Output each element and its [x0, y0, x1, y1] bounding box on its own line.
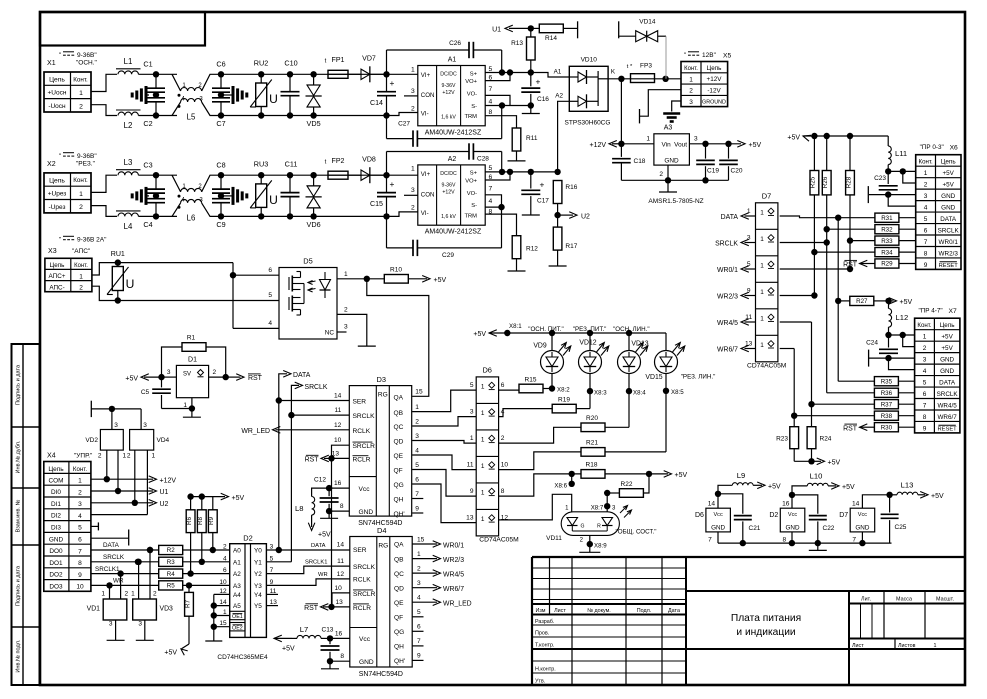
svg-text:QB: QB	[394, 556, 404, 563]
svg-text:DATA: DATA	[311, 543, 326, 549]
diode pack VD3	[133, 599, 157, 620]
svg-text:1: 1	[411, 66, 415, 73]
connector table X4	[44, 462, 91, 592]
resistor R14	[531, 27, 540, 29]
svg-text:Подпись и дата: Подпись и дата	[16, 565, 22, 606]
wire to VD2 VD4 pin3	[109, 406, 115, 412]
svg-text:WR6/7: WR6/7	[937, 414, 957, 421]
wire RU1 bottom to D5 pin5	[118, 300, 279, 302]
svg-text:QA: QA	[394, 395, 404, 402]
svg-text:L2: L2	[124, 121, 133, 130]
svg-text:5: 5	[78, 525, 82, 532]
resistor R13	[530, 28, 532, 37]
stub A2 CON	[404, 194, 418, 196]
capacitor C17	[530, 172, 532, 189]
svg-text:R10: R10	[390, 267, 402, 274]
svg-text:9: 9	[417, 653, 421, 660]
svg-text:RCLR: RCLR	[353, 457, 371, 464]
svg-text:QF: QF	[394, 615, 403, 622]
test point X8:1	[504, 330, 510, 336]
svg-text:12В": 12В"	[702, 52, 717, 59]
svg-text:9-36В": 9-36В"	[77, 52, 97, 59]
TVS VD6	[313, 175, 315, 186]
wire D5 pin2 to ground	[337, 314, 367, 346]
svg-text:Дата: Дата	[668, 608, 680, 614]
svg-text:+12V: +12V	[160, 477, 177, 484]
svg-text:R19: R19	[558, 397, 570, 404]
svg-text:VD1: VD1	[87, 606, 101, 613]
svg-text:WR: WR	[318, 572, 328, 578]
svg-text:Y0: Y0	[254, 548, 262, 555]
svg-text:3: 3	[138, 621, 142, 628]
capacitor C1	[155, 74, 157, 88]
svg-text:DO1: DO1	[49, 560, 63, 567]
svg-text:4: 4	[268, 320, 272, 327]
svg-text:R11: R11	[526, 135, 538, 142]
svg-text:QH': QH'	[394, 511, 405, 518]
svg-text:SRCLK1: SRCLK1	[95, 566, 120, 573]
inductor L10	[807, 483, 828, 486]
svg-text:t *: t *	[627, 64, 633, 70]
wire RU1 top to D5 pin6	[118, 262, 233, 264]
svg-text:3: 3	[411, 88, 415, 95]
svg-text:Y1: Y1	[254, 559, 262, 566]
chassis comb left	[145, 86, 148, 104]
svg-text:U: U	[269, 193, 278, 207]
svg-text:14: 14	[708, 501, 716, 508]
svg-text:5: 5	[268, 292, 272, 299]
svg-text:L9: L9	[737, 471, 745, 480]
wire D7 GND	[861, 532, 863, 543]
resistor R21	[499, 452, 581, 470]
svg-text:X8:9: X8:9	[594, 543, 607, 550]
svg-text:R8: R8	[197, 516, 204, 525]
svg-text:WR4/5: WR4/5	[937, 402, 957, 409]
resistor R33	[847, 237, 853, 243]
svg-text:+5V: +5V	[900, 299, 913, 306]
VD4 legs	[134, 450, 136, 503]
svg-text:QA: QA	[394, 542, 404, 549]
node K	[608, 78, 630, 80]
svg-text:1: 1	[411, 166, 415, 173]
svg-text:10: 10	[219, 579, 227, 586]
svg-text:9-36V: 9-36V	[442, 182, 456, 188]
svg-text:16: 16	[782, 501, 790, 508]
wire D3 RCLR	[332, 457, 350, 459]
svg-text:1: 1	[760, 236, 764, 243]
svg-text:Подл.: Подл.	[637, 608, 652, 614]
svg-text:VD13: VD13	[631, 341, 648, 348]
svg-text:АПС+: АПС+	[49, 273, 66, 280]
svg-text:2: 2	[79, 285, 83, 292]
wire DATA to D4 SER	[279, 549, 350, 551]
svg-text:1: 1	[747, 208, 751, 215]
svg-text:4: 4	[924, 205, 928, 212]
wire A1 TRM	[485, 116, 516, 128]
svg-text:QH: QH	[394, 497, 404, 504]
svg-text:1: 1	[760, 289, 764, 296]
svg-text:Инв.№ дубл.: Инв.№ дубл.	[16, 440, 22, 473]
svg-text:U: U	[269, 92, 278, 106]
svg-text:VO-: VO-	[467, 92, 477, 98]
svg-text:TRM: TRM	[465, 213, 478, 219]
svg-text:6: 6	[923, 391, 927, 398]
wire X2 rail to A2 VI+	[387, 174, 418, 176]
svg-text:OE2: OE2	[232, 625, 243, 631]
svg-text:D5: D5	[303, 257, 313, 266]
wire D5 pin1	[337, 278, 367, 280]
svg-text:CD74AC05M: CD74AC05M	[479, 536, 519, 543]
svg-text:VD2: VD2	[85, 437, 98, 444]
svg-text:+5V: +5V	[842, 484, 855, 491]
resistor R38	[791, 413, 797, 419]
svg-text:8: 8	[489, 109, 493, 116]
wire X1 rail to A1 VI+	[387, 73, 418, 75]
svg-text:9: 9	[415, 505, 419, 512]
svg-text:L7: L7	[300, 625, 308, 634]
stub Y5	[266, 605, 278, 607]
DC/DC module A2	[418, 165, 485, 225]
svg-text:5: 5	[415, 462, 419, 469]
+5V rail pullups	[191, 496, 225, 498]
svg-text:+12V: +12V	[707, 76, 723, 83]
wire after R3	[183, 561, 230, 563]
svg-text:R5: R5	[167, 583, 175, 590]
svg-text:C11: C11	[285, 159, 298, 168]
connector table X7	[915, 318, 960, 433]
svg-text:R1: R1	[187, 335, 196, 342]
svg-text:WR0/1: WR0/1	[443, 542, 464, 549]
wire pin2 X1	[91, 105, 117, 116]
svg-text:3: 3	[143, 422, 147, 429]
wire	[156, 73, 177, 75]
net arrow WR0/1 into D7	[745, 268, 756, 270]
svg-text:1,6 kV: 1,6 kV	[441, 115, 456, 121]
svg-text:-Uосн: -Uосн	[48, 103, 66, 110]
svg-text:1: 1	[344, 271, 348, 278]
svg-text:+Uрез: +Uрез	[48, 191, 67, 198]
wire top rail	[221, 174, 387, 176]
net arrow U1	[509, 27, 531, 29]
svg-text:SV: SV	[183, 372, 191, 378]
resistor R24	[807, 427, 816, 449]
ground stub D4	[329, 661, 331, 669]
svg-text:AM40UW-2412SZ: AM40UW-2412SZ	[425, 129, 482, 136]
capacitor C13	[329, 638, 331, 644]
test point X8:2	[551, 374, 553, 389]
svg-text:R27: R27	[856, 298, 868, 305]
svg-text:R15: R15	[525, 377, 537, 384]
svg-text:WR2/3: WR2/3	[717, 294, 738, 301]
wire SRCLK DO1	[91, 561, 159, 563]
resistor R4	[159, 569, 183, 578]
choke L6	[172, 175, 181, 192]
svg-text:Y5: Y5	[254, 603, 262, 610]
svg-text:7: 7	[78, 548, 82, 555]
svg-text:R2: R2	[167, 547, 175, 554]
svg-text:Vcc: Vcc	[359, 486, 371, 493]
ground stub bottom	[817, 543, 819, 550]
svg-text:5: 5	[923, 380, 927, 387]
svg-text:8: 8	[78, 560, 82, 567]
svg-text:4: 4	[489, 198, 493, 205]
svg-text:+5V: +5V	[282, 646, 295, 653]
net arrow DATA	[279, 374, 287, 401]
stub D4 QG	[412, 630, 423, 632]
svg-text:L8: L8	[295, 504, 303, 513]
svg-text:1: 1	[481, 516, 485, 523]
svg-text:VO-: VO-	[467, 191, 477, 197]
net arrow DATA into D7	[745, 215, 756, 217]
svg-text:VD10: VD10	[581, 57, 598, 64]
svg-text:1: 1	[78, 478, 82, 485]
svg-text:1: 1	[470, 435, 474, 442]
net arrow RST to D4	[323, 606, 332, 608]
chassis comb right	[232, 86, 235, 104]
svg-text:RESET: RESET	[939, 263, 959, 269]
svg-text:A2: A2	[448, 156, 457, 163]
svg-text:R: R	[597, 524, 601, 530]
svg-text:4: 4	[923, 368, 927, 375]
svg-text:DI1: DI1	[51, 501, 61, 508]
wire X6 GND	[885, 191, 891, 197]
svg-text:7: 7	[708, 537, 712, 544]
stub A1 CON	[404, 95, 418, 97]
wire D3 Vcc	[329, 487, 349, 489]
capacitor C26 loop	[386, 50, 388, 74]
svg-text:X8:4: X8:4	[633, 390, 646, 397]
svg-text:7: 7	[417, 638, 421, 645]
capacitor C12	[328, 488, 330, 496]
svg-text:CON: CON	[421, 191, 435, 198]
TVS VD14	[618, 21, 620, 38]
connector table X1	[44, 72, 91, 112]
svg-text:Цепь: Цепь	[49, 177, 65, 184]
svg-text:Vin: Vin	[662, 142, 672, 149]
svg-text:Конт.: Конт.	[73, 76, 88, 83]
svg-text:D7: D7	[839, 512, 848, 519]
svg-text:2: 2	[924, 182, 928, 189]
wire X3 pin1	[92, 263, 118, 275]
dots VD3 legs	[135, 559, 141, 565]
svg-text:3: 3	[114, 422, 118, 429]
svg-text:A3: A3	[664, 125, 673, 132]
svg-text:1: 1	[101, 591, 105, 598]
svg-text:L3: L3	[124, 158, 133, 167]
net arrow WR2/3 into D7	[745, 295, 756, 297]
wire after R5	[183, 584, 230, 586]
svg-text:DATA: DATA	[103, 542, 120, 549]
svg-text:R16: R16	[565, 184, 577, 191]
capacitor C7	[220, 95, 222, 98]
svg-text:A2: A2	[555, 93, 563, 100]
svg-text:2: 2	[79, 103, 83, 110]
svg-text:DI2: DI2	[51, 513, 61, 520]
svg-text:и индикации: и индикации	[736, 627, 795, 638]
svg-text:-Uрез: -Uрез	[49, 204, 66, 211]
resistor R25	[813, 136, 815, 171]
svg-text:RG: RG	[378, 543, 388, 550]
svg-text:R4: R4	[167, 571, 175, 578]
svg-text:G: G	[581, 524, 585, 530]
wire D4 Vcc	[330, 637, 350, 639]
svg-text:+5V: +5V	[942, 181, 954, 188]
register D4	[350, 537, 412, 668]
connector table X3	[45, 258, 92, 291]
svg-text:10: 10	[334, 585, 342, 592]
LED VD9	[551, 333, 553, 351]
svg-text:1: 1	[924, 170, 928, 177]
wire D2 Y1	[266, 561, 291, 563]
svg-text:5: 5	[489, 165, 493, 172]
wire D3 SER	[279, 400, 350, 402]
svg-text:9-36В": 9-36В"	[77, 153, 97, 160]
capacitor C20	[728, 144, 730, 159]
svg-text:D2: D2	[769, 512, 778, 519]
capacitor C22	[792, 495, 818, 514]
svg-text:GND: GND	[664, 158, 679, 165]
svg-text:"ОСН. ЛИН.": "ОСН. ЛИН."	[613, 326, 649, 333]
svg-text:1,6 kV: 1,6 kV	[441, 214, 456, 220]
svg-text:5: 5	[747, 261, 751, 268]
svg-text:Конт.: Конт.	[917, 322, 931, 329]
svg-text:2: 2	[344, 306, 348, 313]
svg-text:WR_LED: WR_LED	[443, 601, 472, 608]
resistor R29	[860, 260, 868, 267]
chassis comb left	[145, 187, 148, 205]
svg-text:SRCLR: SRCLR	[353, 443, 376, 450]
svg-text:6: 6	[223, 567, 227, 574]
hex inverter D7	[756, 203, 778, 362]
capacitor C3	[155, 175, 157, 189]
chassis stub X6	[869, 194, 888, 196]
svg-text:RST: RST	[305, 457, 320, 464]
svg-text:GND: GND	[941, 193, 955, 200]
wire D2 Y3 to D4 RCLK	[266, 579, 349, 586]
svg-text:1: 1	[79, 191, 83, 198]
stub GND X4	[91, 537, 128, 539]
svg-text:SN74HC594D: SN74HC594D	[359, 671, 403, 678]
svg-text:C7: C7	[216, 119, 225, 128]
resistor R9	[212, 497, 214, 510]
svg-text:9: 9	[924, 262, 928, 269]
svg-text:Конт.: Конт.	[74, 263, 88, 269]
svg-text:WR6/7: WR6/7	[443, 586, 464, 593]
wire D6 pin12 to VD11	[499, 494, 572, 520]
svg-text:+5V: +5V	[434, 277, 447, 284]
svg-text:R38: R38	[881, 413, 893, 420]
net arrow WR0/1	[412, 543, 437, 545]
svg-text:Лист: Лист	[554, 608, 566, 614]
dual diode VD10	[569, 66, 608, 111]
stub D4 QH'	[412, 659, 423, 661]
svg-text:SRCLK: SRCLK	[715, 241, 738, 248]
svg-text:GND: GND	[941, 204, 955, 211]
wire A1 S+ out	[485, 72, 531, 74]
svg-text:GROUND: GROUND	[702, 100, 726, 106]
diode pack VD4	[130, 430, 154, 451]
svg-text:+5V: +5V	[232, 495, 245, 502]
svg-text:DO0: DO0	[49, 548, 63, 555]
svg-text:D3: D3	[377, 375, 387, 384]
wire C5 to D1 pin1	[162, 408, 192, 410]
svg-text:COM: COM	[49, 477, 64, 484]
svg-text:10: 10	[501, 462, 509, 469]
svg-text:-12V: -12V	[707, 87, 721, 94]
svg-text:+5V: +5V	[931, 493, 944, 500]
svg-text:WR4/5: WR4/5	[717, 320, 738, 327]
svg-text:R28: R28	[845, 176, 852, 188]
wire A1 out to VD10	[531, 73, 570, 78]
svg-text:Х6: Х6	[950, 145, 958, 152]
svg-text:A4: A4	[233, 592, 241, 599]
diode VD8	[348, 174, 361, 176]
svg-text:DO2: DO2	[49, 572, 63, 579]
svg-text:VD9: VD9	[533, 343, 547, 350]
svg-text:C23: C23	[874, 175, 886, 182]
svg-text:3: 3	[923, 357, 927, 364]
inductor L8	[312, 488, 330, 496]
svg-text:2: 2	[127, 453, 131, 460]
resistor R7	[188, 585, 190, 592]
chassis stub left	[90, 401, 92, 417]
svg-text:2: 2	[79, 204, 83, 211]
svg-text:7: 7	[489, 185, 493, 192]
ground stub below A1 S-	[530, 106, 532, 114]
svg-text:SRCLK: SRCLK	[353, 564, 376, 571]
svg-text:+5V: +5V	[941, 345, 953, 352]
svg-text:4: 4	[223, 555, 227, 562]
wire D7 pin10	[780, 321, 812, 323]
svg-text:L4: L4	[124, 222, 133, 231]
svg-text:C10: C10	[284, 59, 297, 68]
svg-text:1: 1	[481, 463, 485, 470]
net arrow +5V R18	[664, 471, 672, 478]
svg-text:9: 9	[470, 488, 474, 495]
svg-text:"ПР 4-7": "ПР 4-7"	[919, 308, 943, 315]
svg-text:R22: R22	[621, 481, 633, 488]
svg-text:CD74AC05M: CD74AC05M	[747, 362, 787, 369]
svg-text:12: 12	[337, 571, 345, 578]
capacitor C14	[383, 71, 389, 77]
net arrow +5V L8	[308, 523, 315, 531]
inductor L2	[118, 112, 138, 115]
net arrow RST out	[226, 376, 241, 378]
wire A2 S-	[485, 206, 501, 208]
resistor R31	[838, 217, 875, 219]
svg-text:SRCLK: SRCLK	[353, 413, 376, 420]
wire after R4	[183, 573, 230, 575]
net arrow +5V rail	[803, 135, 811, 141]
wire X6 pin2 jog	[903, 171, 916, 183]
svg-text:C1: C1	[143, 60, 152, 69]
svg-text:+: +	[390, 179, 395, 189]
svg-text:U: U	[126, 277, 135, 291]
diode pack VD1	[103, 599, 127, 620]
svg-text:RCLK: RCLK	[353, 428, 371, 435]
resistor R15	[499, 389, 519, 391]
svg-text:9: 9	[78, 572, 82, 579]
wire bottom rail	[221, 215, 387, 217]
wire L11 to X6 pin1	[885, 168, 891, 174]
svg-text:RST: RST	[843, 425, 858, 432]
svg-text:C20: C20	[731, 168, 743, 175]
power pins D6	[706, 508, 731, 532]
wire after R2	[183, 549, 230, 551]
svg-text:NC: NC	[325, 330, 335, 337]
svg-text:C22: C22	[823, 525, 835, 532]
svg-text:RST: RST	[843, 262, 858, 269]
